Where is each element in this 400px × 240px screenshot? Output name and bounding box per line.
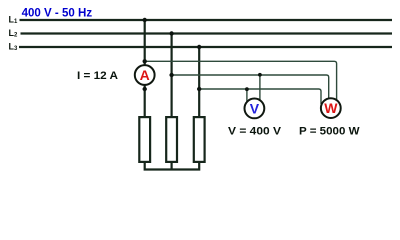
node: junction L2 / drop 2 [169,31,173,35]
wire: voltmeter right stub from L2 branch [259,75,261,102]
svg-text:A: A [140,67,150,83]
resistor R3 (load) [194,117,205,162]
svg-text:L1: L1 [9,15,19,26]
wire: star point connector joining resistor bottoms [145,163,200,170]
wire: measuring branch from L1 drop to wattmeter (top) [145,61,337,102]
wire: vertical drop from L3 to resistor R3 [198,47,200,117]
svg-text:V: V [250,101,260,117]
voltmeter V (circle) [245,99,265,119]
svg-text:V = 400 V: V = 400 V [228,125,282,137]
resistor R2 (load) [166,117,177,162]
ammeter A (circle) [135,65,155,85]
line L2 (phase conductor) [21,32,393,34]
svg-text:P = 5000 W: P = 5000 W [299,125,360,137]
line L3 (phase conductor) [19,46,392,48]
wattmeter W (circle) [321,98,341,118]
wire: voltmeter left stub from L3 branch [246,89,248,102]
svg-text:400 V - 50 Hz: 400 V - 50 Hz [22,5,93,19]
svg-text:L2: L2 [9,28,19,39]
resistor R1 (load) [139,117,150,162]
node: voltmeter left stub tap [245,87,249,91]
node: branch tap on drop 3 [197,87,201,91]
node: branch tap on drop 2 [169,73,173,77]
line L1 (phase conductor) [20,19,393,21]
svg-text:I = 12 A: I = 12 A [77,70,118,82]
node: junction L3 / drop 3 [197,45,201,49]
node: branch tap above ammeter [143,59,147,63]
wire: measuring branch from L3 drop to wattmeter (bottom) [199,89,321,104]
node: terminal below ammeter [143,87,147,91]
wire: vertical drop from L2 to resistor R2 [171,34,173,117]
svg-text:W: W [324,100,338,116]
wire: vertical drop from L1 through ammeter to resistor R1 [144,20,146,117]
node: junction L1 / drop 1 [143,18,147,22]
wire: measuring branch from L2 drop to wattmeter (middle) [172,75,329,100]
node: voltmeter right stub tap [258,73,262,77]
svg-text:L3: L3 [9,42,19,53]
wire: middle resistor stub to star point [171,163,173,170]
